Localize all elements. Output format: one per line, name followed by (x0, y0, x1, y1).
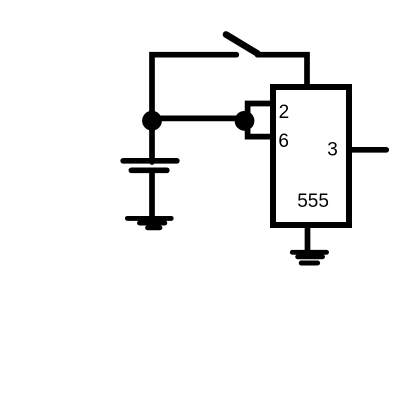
value label 555 (297, 191, 329, 212)
wire: bracket joining pin 2 and pin 6 (248, 104, 273, 137)
pin label 3 (327, 140, 338, 161)
wire: node between junction dots (threshold/trigger net) (152, 116, 245, 122)
pin label 6 (278, 131, 289, 152)
capacitor C1 top plate (123, 158, 177, 164)
ground (under 555) (292, 252, 326, 263)
op-amp/timer U1 555 body (273, 87, 349, 225)
svg-text:2: 2 (279, 102, 290, 123)
wire: capacitor bottom to ground (149, 170, 155, 218)
wire: left branch from capacitor up to switch left contact (152, 55, 236, 162)
ground (left, under capacitor) (127, 218, 171, 227)
node junction dot at capacitor top (142, 111, 162, 131)
wire: switch right contact to 555 top pin (258, 55, 308, 88)
wire: 555 ground pin lead (305, 225, 311, 252)
capacitor C1 bottom plate (131, 167, 166, 173)
wire: pin 3 output lead (352, 147, 386, 153)
svg-text:3: 3 (327, 140, 338, 161)
pin label 2 (279, 102, 290, 123)
switch S1 blade (open, tilted up-left) (226, 35, 258, 54)
node junction dot at pins 2/6 (235, 111, 255, 131)
svg-text:6: 6 (278, 131, 289, 152)
svg-text:555: 555 (297, 191, 329, 212)
